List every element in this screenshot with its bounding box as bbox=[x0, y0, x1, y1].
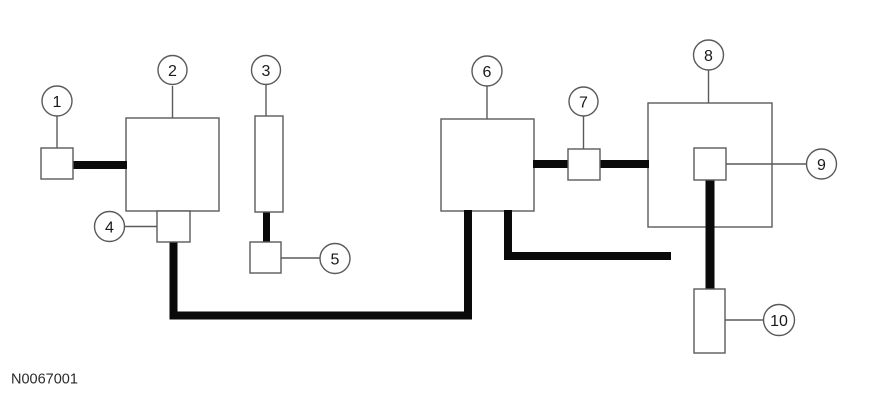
svg-text:6: 6 bbox=[483, 64, 492, 81]
svg-text:3: 3 bbox=[262, 63, 271, 80]
svg-text:7: 7 bbox=[579, 95, 588, 112]
svg-text:9: 9 bbox=[817, 157, 826, 174]
svg-text:1: 1 bbox=[53, 94, 62, 111]
svg-text:8: 8 bbox=[704, 48, 713, 65]
svg-text:10: 10 bbox=[770, 313, 788, 330]
svg-text:N0067001: N0067001 bbox=[11, 372, 78, 388]
svg-text:2: 2 bbox=[168, 63, 177, 80]
svg-text:4: 4 bbox=[105, 220, 114, 237]
svg-text:5: 5 bbox=[331, 252, 340, 269]
